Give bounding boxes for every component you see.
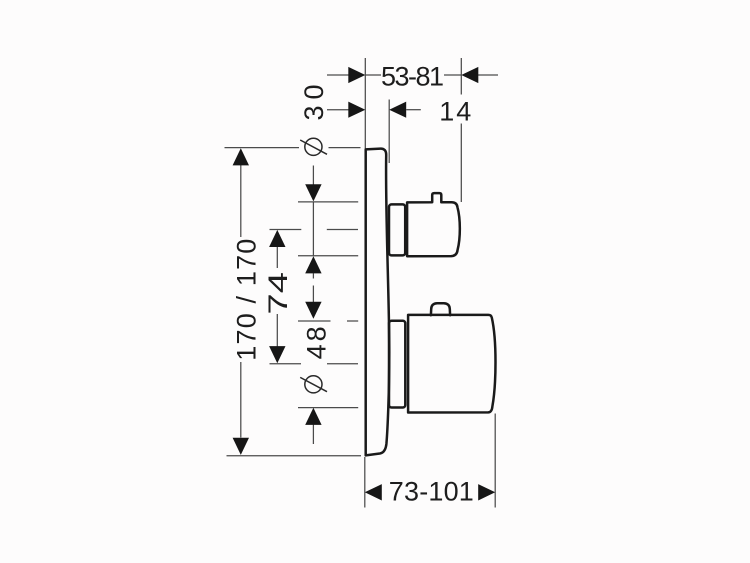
wire: dim line stub row1 right — [478, 74, 498, 76]
diameter symbol lower — [300, 376, 327, 393]
wire: dim line row1 inner left — [365, 74, 381, 76]
svg-text:73-101: 73-101 — [389, 477, 474, 507]
wire: lower handle bottom extension line — [298, 407, 358, 409]
svg-text:170 / 170: 170 / 170 — [231, 239, 261, 361]
arrowhead up dia30 bottom — [305, 256, 321, 273]
wire: leader below diameter symbol — [312, 166, 314, 186]
wire: lower handle top extension line right part — [347, 320, 358, 322]
arrowhead up 74 top — [269, 230, 285, 247]
wire: extension line x=461 upper — [460, 58, 462, 95]
lower valve adapter sleeve — [389, 321, 405, 408]
svg-text:53-81: 53-81 — [381, 61, 444, 91]
upper handle with index tab — [407, 193, 460, 256]
wire: extension line x=365 — [364, 58, 366, 151]
arrowhead up 170 top — [233, 148, 249, 165]
diameter symbol upper — [300, 138, 327, 155]
lower handle body — [408, 315, 495, 413]
svg-text:74: 74 — [264, 272, 294, 315]
wire: dim line stub row2 right — [406, 109, 421, 111]
wire: plate bottom extension line — [227, 455, 362, 457]
arrowhead right 73-101 — [478, 484, 495, 500]
wire: dim line between upper handle edges — [312, 202, 314, 256]
wire: 74 dim line upper — [276, 247, 278, 269]
wire: stub under up arrow of dia30 — [312, 273, 314, 278]
wire: 170 dim line upper — [240, 165, 242, 237]
wire: upper axis extension line right — [327, 229, 358, 231]
svg-text:4: 4 — [456, 97, 471, 127]
wire: 170 dim line lower — [240, 362, 242, 438]
wire: lower axis extension line right — [327, 363, 358, 365]
wire: dim line stub row2 left — [327, 109, 349, 111]
wire: upper handle top extension line — [298, 201, 358, 203]
wire: lower axis extension line left — [270, 363, 302, 365]
arrowhead left 73-101 — [365, 484, 382, 500]
wire: extension line x=461 lower — [460, 124, 462, 203]
wire: plate top extension line right part — [329, 147, 361, 149]
arrowhead down 74 bottom — [269, 346, 285, 363]
arrowhead down dia48 top — [305, 302, 321, 319]
wire: extension line x=389 — [388, 100, 390, 164]
wire: extension line x=365 bottom — [364, 457, 366, 508]
arrowhead left at 53-81 right end — [461, 67, 478, 83]
arrowhead left row2 — [389, 102, 406, 118]
wire: upper axis extension line left — [270, 229, 302, 231]
arrowhead right at wall line row1 — [348, 67, 365, 83]
upper valve adapter sleeve — [389, 204, 405, 255]
wire: lower handle top extension line left part — [298, 320, 331, 322]
wire: upper handle bottom extension line — [298, 255, 358, 257]
wire: stub under up arrow of dia48 — [312, 425, 314, 445]
svg-text:1: 1 — [439, 97, 454, 127]
arrowhead down 170 bottom — [233, 438, 249, 455]
arrowhead right row2 — [348, 102, 365, 118]
wire: extension line x=495 bottom — [494, 414, 496, 508]
wire: plate top extension line left part — [225, 147, 300, 149]
wire: 74 dim line lower — [276, 314, 278, 347]
arrowhead down dia30 top — [305, 184, 321, 201]
wire: dim line row1 inner right — [444, 74, 461, 76]
lower handle knob — [431, 303, 450, 315]
wall plate (side profile) — [366, 149, 390, 456]
wire: dim line stub row1 left — [327, 74, 349, 76]
arrowhead up dia48 bottom — [305, 408, 321, 425]
wire: dia48 leader above down arrow — [312, 286, 314, 303]
